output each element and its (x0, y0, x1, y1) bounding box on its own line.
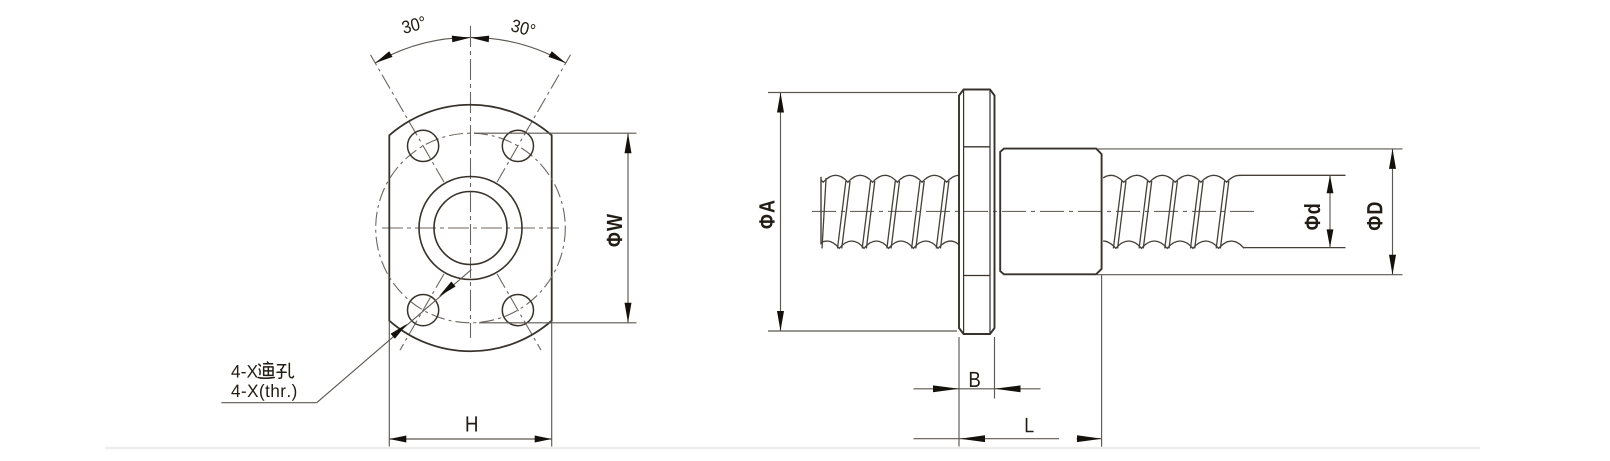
PhiA arrow up (777, 93, 784, 113)
PhiD arrow down (1389, 255, 1396, 275)
H extension line right (551, 321, 553, 447)
bolt hole 1 (408, 130, 439, 161)
bolt hole 4 (502, 295, 533, 326)
faint page rule bottom (105, 447, 1480, 449)
thread groove lines (1216, 181, 1224, 248)
L arrow right segment (1077, 438, 1103, 440)
H arrow right (535, 436, 552, 443)
left screw thread (821, 175, 959, 182)
thread groove lines (838, 181, 846, 248)
radial centerline upper-left 30deg (371, 55, 445, 182)
PhiD arrow up (1389, 149, 1396, 169)
PhiA extension line bottom (768, 330, 957, 332)
flange chamfer edge line right (989, 90, 991, 335)
arrow pair at top vertex (452, 36, 470, 43)
thread groove lines (1191, 181, 1199, 248)
flange chamfer edge line left (963, 90, 965, 335)
underline of hole callout text (221, 402, 316, 404)
PhiD dimension line (1392, 149, 1394, 275)
B arrow right outside (995, 385, 1021, 392)
right screw thread (1103, 175, 1241, 182)
left screw start edge (820, 177, 822, 245)
label L (1026, 418, 1034, 432)
label PhiD (1367, 202, 1382, 230)
PhiD extension line top (1097, 148, 1403, 150)
PhiW arrow down (625, 303, 632, 323)
label PhiA (759, 200, 774, 228)
label 30deg right (510, 19, 535, 37)
H arrow left (389, 436, 406, 443)
PhiW extension line bottom (479, 322, 637, 324)
flange tangent line upper (964, 146, 990, 148)
bolt circle dash-dot (376, 133, 566, 323)
center bore inner circle (434, 192, 507, 265)
flange outline front view (389, 105, 551, 351)
PhiW arrow up (625, 133, 632, 153)
chinese glyph kong (277, 363, 294, 378)
label PhiW (607, 214, 622, 246)
Phid arrow down (1327, 229, 1334, 247)
flange side view outline (959, 90, 995, 335)
PhiA dimension line (780, 93, 782, 332)
bolt hole 2 (502, 130, 533, 161)
thread groove lines (1113, 181, 1121, 248)
side view centerline (812, 210, 1254, 212)
center bore outer circle (419, 177, 522, 280)
B extension line right (994, 337, 996, 399)
thread groove lines (822, 178, 826, 248)
H extension line left (388, 321, 390, 447)
label 30deg left (401, 16, 426, 34)
screw crest straight top right (1240, 174, 1346, 176)
label 4-X thr (231, 384, 296, 401)
B arrow left outside (933, 385, 959, 392)
radial centerline lower-right 30deg (497, 274, 541, 350)
horizontal centerline front view (382, 227, 559, 229)
arrow left end of 30deg arc (375, 51, 392, 63)
arrow right end of 30deg arc (549, 51, 566, 63)
B dimension line (914, 388, 1041, 390)
chinese glyph tong (258, 362, 274, 378)
label B (970, 372, 980, 387)
B extension line left (958, 337, 960, 447)
radial centerline lower-left 30deg (400, 274, 444, 350)
label H (466, 416, 476, 431)
label 4-X tongkong (231, 365, 257, 377)
radial centerline upper-right 30deg (497, 55, 571, 182)
L arrow left inside (960, 435, 985, 442)
PhiD extension line bottom (1097, 274, 1403, 276)
callout arrow upper (439, 282, 456, 297)
thread groove lines (1139, 181, 1147, 248)
angular dimension arc 30deg (375, 37, 566, 63)
leader line of hole callout (317, 270, 472, 403)
bolt hole 3 (408, 295, 439, 326)
PhiA arrow down (777, 311, 784, 331)
L extension line right (1101, 275, 1103, 446)
flange tangent line lower (964, 275, 990, 277)
callout arrow lower (391, 324, 408, 339)
thread groove lines (936, 181, 944, 248)
screw crest straight bottom right (1244, 247, 1345, 249)
thread groove lines (1165, 181, 1173, 248)
label Phid (1304, 204, 1320, 229)
Phid arrow up (1327, 175, 1334, 193)
nut body outline (1000, 149, 1101, 275)
PhiW dimension line (627, 133, 629, 323)
thread groove lines (862, 181, 870, 248)
Phid dimension line (1329, 175, 1331, 247)
H dimension line (389, 438, 551, 440)
PhiA extension line top (768, 92, 957, 94)
vertical centerline front view (470, 26, 472, 338)
thread groove lines (887, 181, 895, 248)
L dimension line (914, 438, 1060, 440)
PhiW extension line top (474, 132, 637, 134)
thread groove lines (912, 181, 920, 248)
